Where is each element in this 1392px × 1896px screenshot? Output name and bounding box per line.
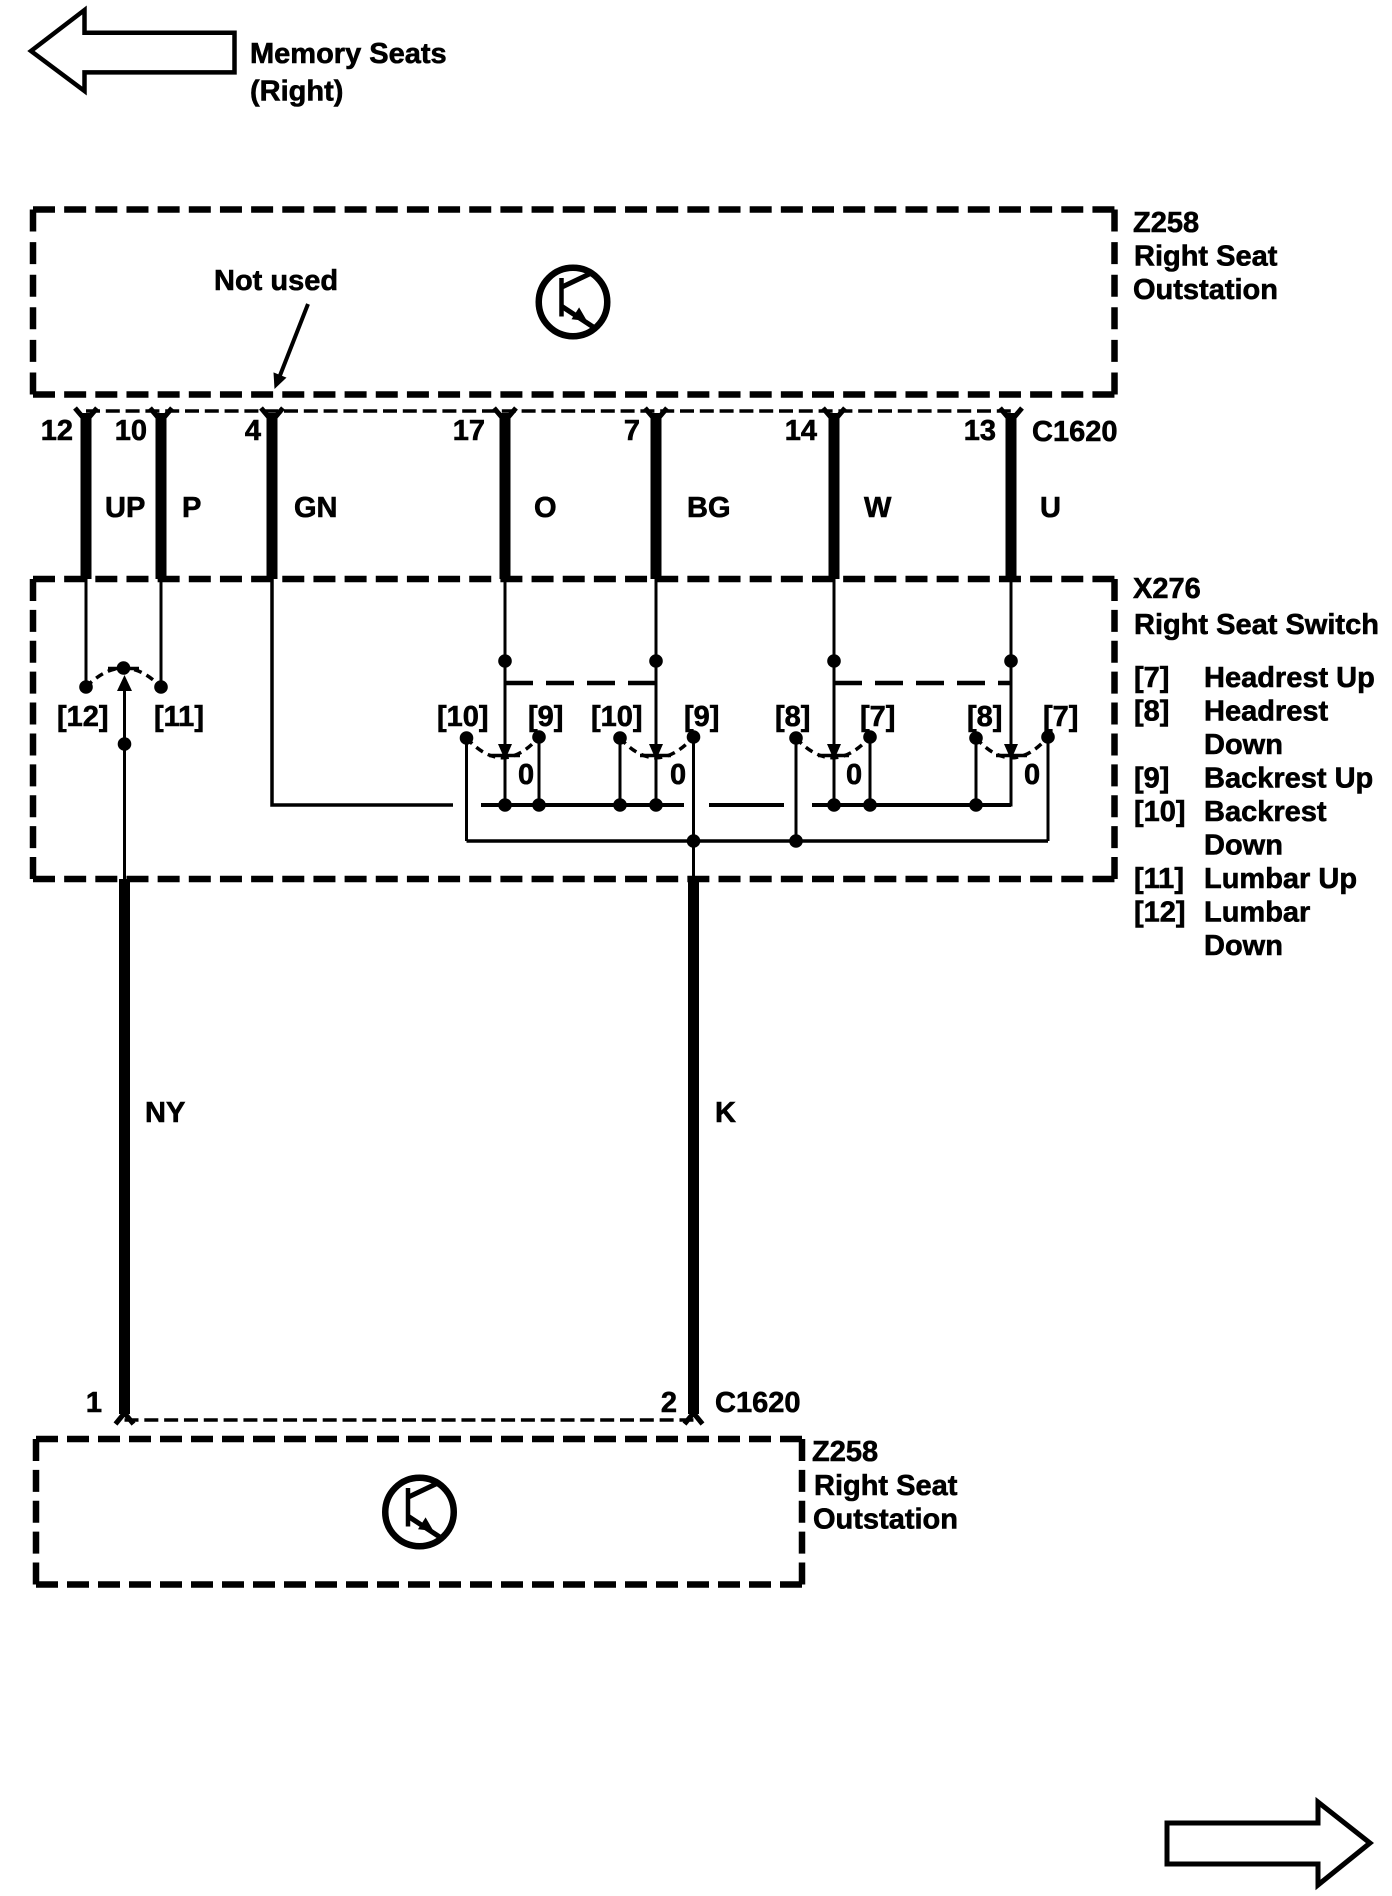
headrest switch right: common wire from pin 13	[1010, 579, 1013, 748]
svg-text:Outstation: Outstation	[813, 1504, 958, 1536]
svg-text:Z258: Z258	[1133, 207, 1199, 239]
headrest right contact [8] dot	[969, 731, 983, 745]
svg-text:[8]: [8]	[1134, 696, 1169, 728]
svg-text:Down: Down	[1204, 930, 1283, 962]
stub from W apex to 0 bus	[833, 756, 836, 805]
pin 12 terminal	[75, 408, 97, 421]
headrest right [8] stub to 0 bus	[975, 738, 978, 805]
svg-text:[10]: [10]	[1134, 796, 1186, 828]
ganged link dashed (backrest pair)	[505, 681, 656, 686]
junction dot O common on bus	[498, 798, 512, 812]
svg-text:7: 7	[624, 415, 640, 447]
backrest [10] wire down to lower bus	[465, 738, 468, 841]
backrest contact [9] dot	[532, 730, 546, 744]
svg-text:[10]: [10]	[591, 701, 643, 733]
headrest right rocker dashed arc	[976, 737, 1048, 758]
svg-text:UP: UP	[105, 492, 145, 524]
leader arrow to pin 4	[279, 304, 308, 378]
headrest [8] wire down to lower bus	[795, 738, 798, 841]
lumbar common junction dot	[118, 737, 132, 751]
backrest left rocker dashed arc	[467, 737, 540, 758]
backrest switch left: common wire from pin 17	[504, 579, 507, 748]
svg-text:10: 10	[115, 415, 147, 447]
junction dot W common on bus	[827, 798, 841, 812]
wire W pin 14	[829, 413, 840, 579]
svg-text:[7]: [7]	[1134, 662, 1169, 694]
off-page connector arrow (bottom right)	[1167, 1802, 1370, 1885]
svg-text:[8]: [8]	[775, 701, 810, 733]
svg-text:13: 13	[964, 415, 996, 447]
junction dot [10] right on bus	[613, 798, 627, 812]
box Z258 Right Seat Outstation (top)	[33, 210, 1115, 395]
svg-text:Down: Down	[1204, 729, 1283, 761]
headrest contact [7] dot	[863, 730, 877, 744]
headrest left rocker dashed arc	[796, 737, 870, 758]
junction dot [8] on lower bus	[789, 834, 803, 848]
connector C1620 dashed line (top)	[86, 409, 1011, 413]
headrest right [7] wire down to lower bus	[1047, 737, 1050, 841]
pin 1 terminal (bottom)	[116, 1413, 134, 1424]
headrest switch left: common wire from pin 14	[833, 579, 836, 748]
svg-text:Down: Down	[1204, 830, 1283, 862]
backrest left apex bar	[489, 754, 520, 758]
svg-text:1: 1	[86, 1387, 102, 1419]
transistor symbol (bottom outstation)	[385, 1478, 454, 1547]
junction dot BG common on bus	[649, 798, 663, 812]
ganged link dashed (headrest pair)	[834, 681, 1011, 686]
headrest [7] stub to 0 bus	[869, 737, 872, 805]
stub from BG apex to 0 bus	[655, 756, 658, 805]
svg-text:O: O	[534, 492, 557, 524]
junction dot [7] left on bus	[863, 798, 877, 812]
pin 7 terminal	[645, 408, 667, 421]
svg-text:GN: GN	[294, 492, 338, 524]
svg-text:[7]: [7]	[1043, 701, 1078, 733]
lumbar common wire (to NY)	[123, 690, 126, 879]
svg-text:Right Seat: Right Seat	[1134, 241, 1278, 273]
svg-text:[9]: [9]	[1134, 763, 1169, 795]
wire GN pin 4	[267, 413, 278, 579]
svg-text:17: 17	[453, 415, 485, 447]
arrowhead down on W common	[827, 744, 841, 760]
lumbar apex dot	[117, 661, 131, 675]
svg-text:Right Seat Switch: Right Seat Switch	[1134, 609, 1379, 641]
junction dot K on lower bus	[687, 834, 701, 848]
svg-text:4: 4	[245, 415, 261, 447]
junction dot on W common	[827, 654, 841, 668]
svg-text:Headrest Up: Headrest Up	[1204, 662, 1375, 694]
lumbar rocker dashed arc	[86, 668, 161, 687]
wire O pin 17	[500, 413, 511, 579]
svg-text:C1620: C1620	[1032, 416, 1117, 448]
arrowhead down on O common	[498, 744, 512, 760]
off-page connector arrow (left, Memory Seats)	[31, 10, 235, 91]
pin 4 terminal	[261, 408, 283, 421]
junction dot [9] left on bus	[532, 798, 546, 812]
lumbar apex bar	[108, 667, 139, 671]
svg-text:W: W	[864, 492, 892, 524]
backrest right contact [9] dot	[687, 730, 701, 744]
svg-text:[8]: [8]	[967, 701, 1002, 733]
svg-text:C1620: C1620	[715, 1387, 800, 1419]
svg-text:0: 0	[846, 759, 862, 791]
svg-text:[12]: [12]	[57, 701, 109, 733]
svg-text:[7]: [7]	[860, 701, 895, 733]
lumbar switch: wire from pin 10	[160, 579, 163, 687]
junction dot on BG common	[649, 654, 663, 668]
backrest right rocker dashed arc	[620, 737, 694, 758]
backrest switch right: common wire from pin 7	[655, 579, 658, 748]
svg-text:0: 0	[670, 759, 686, 791]
svg-text:Lumbar Up: Lumbar Up	[1204, 863, 1357, 895]
connector C1620 dashed line (bottom)	[125, 1418, 694, 1422]
svg-text:Backrest: Backrest	[1204, 796, 1327, 828]
0 bus segment B	[709, 803, 784, 807]
backrest contact [10] dot	[460, 731, 474, 745]
svg-text:Headrest: Headrest	[1204, 696, 1328, 728]
svg-text:12: 12	[41, 415, 73, 447]
headrest contact [8] dot	[789, 731, 803, 745]
svg-text:Z258: Z258	[812, 1436, 878, 1468]
0 bus segment A	[481, 803, 684, 807]
lumbar common arrowhead (up)	[117, 675, 132, 691]
lower bus wire	[467, 839, 1049, 843]
svg-text:Outstation: Outstation	[1133, 274, 1278, 306]
junction dot [8] right on bus	[969, 798, 983, 812]
junction dot on O common	[498, 654, 512, 668]
svg-text:Not used: Not used	[214, 265, 338, 297]
svg-text:0: 0	[1024, 759, 1040, 791]
svg-text:BG: BG	[687, 492, 731, 524]
svg-text:X276: X276	[1133, 573, 1201, 605]
headrest right apex bar	[996, 754, 1027, 758]
lumbar contact [11] dot	[154, 680, 168, 694]
backrest [9] stub to 0 bus	[538, 737, 541, 805]
wire P pin 10	[156, 413, 167, 579]
svg-text:[9]: [9]	[684, 701, 719, 733]
lumbar contact [12] dot	[79, 680, 93, 694]
wire K (thick)	[688, 879, 699, 1414]
pin 14 terminal	[823, 408, 845, 421]
svg-text:Right Seat: Right Seat	[814, 1470, 958, 1502]
headrest left apex bar	[818, 754, 849, 758]
backrest right [10] stub to 0 bus	[619, 738, 622, 805]
junction dot on U common	[1004, 654, 1018, 668]
svg-text:[12]: [12]	[1134, 897, 1186, 929]
svg-text:[11]: [11]	[154, 701, 204, 733]
svg-text:[10]: [10]	[437, 701, 489, 733]
box Z258 Right Seat Outstation (bottom)	[36, 1439, 802, 1585]
svg-text:14: 14	[785, 415, 817, 447]
pin 13 terminal	[1000, 408, 1022, 421]
stub from U apex to 0 bus	[1010, 756, 1013, 807]
pin 2 terminal (bottom)	[685, 1413, 703, 1424]
stub from O apex to 0 bus	[504, 756, 507, 805]
transistor symbol (top outstation)	[539, 268, 608, 337]
svg-text:0: 0	[518, 759, 534, 791]
headrest right contact [7] dot	[1041, 730, 1055, 744]
arrowhead down on U common	[1004, 744, 1018, 760]
box X276 Right Seat Switch	[33, 579, 1115, 879]
backrest right apex bar	[640, 754, 671, 758]
pin 10 terminal	[150, 408, 172, 421]
svg-text:P: P	[182, 492, 201, 524]
svg-text:[9]: [9]	[528, 701, 563, 733]
wire U pin 13	[1006, 413, 1017, 579]
arrowhead down on BG common	[649, 744, 663, 760]
pin 17 terminal	[494, 408, 516, 421]
svg-text:Memory Seats: Memory Seats	[250, 38, 447, 70]
wire BG pin 7	[651, 413, 662, 579]
svg-text:U: U	[1040, 492, 1061, 524]
wire UP pin 12	[81, 413, 92, 579]
0 bus segment C	[812, 803, 1011, 807]
svg-text:(Right): (Right)	[250, 76, 343, 108]
wire GN from pin 4 to 0 bus	[272, 579, 453, 805]
backrest right contact [10] dot	[613, 731, 627, 745]
svg-text:NY: NY	[145, 1097, 185, 1129]
wire NY (thick)	[119, 879, 130, 1414]
svg-text:[11]: [11]	[1134, 863, 1184, 895]
svg-text:2: 2	[661, 1387, 677, 1419]
svg-text:Backrest Up: Backrest Up	[1204, 763, 1373, 795]
lumbar switch: wire from pin 12	[85, 579, 88, 687]
wire K inside switch ([9] down to box edge)	[692, 737, 695, 879]
svg-text:Lumbar: Lumbar	[1204, 897, 1310, 929]
svg-text:K: K	[715, 1097, 736, 1129]
